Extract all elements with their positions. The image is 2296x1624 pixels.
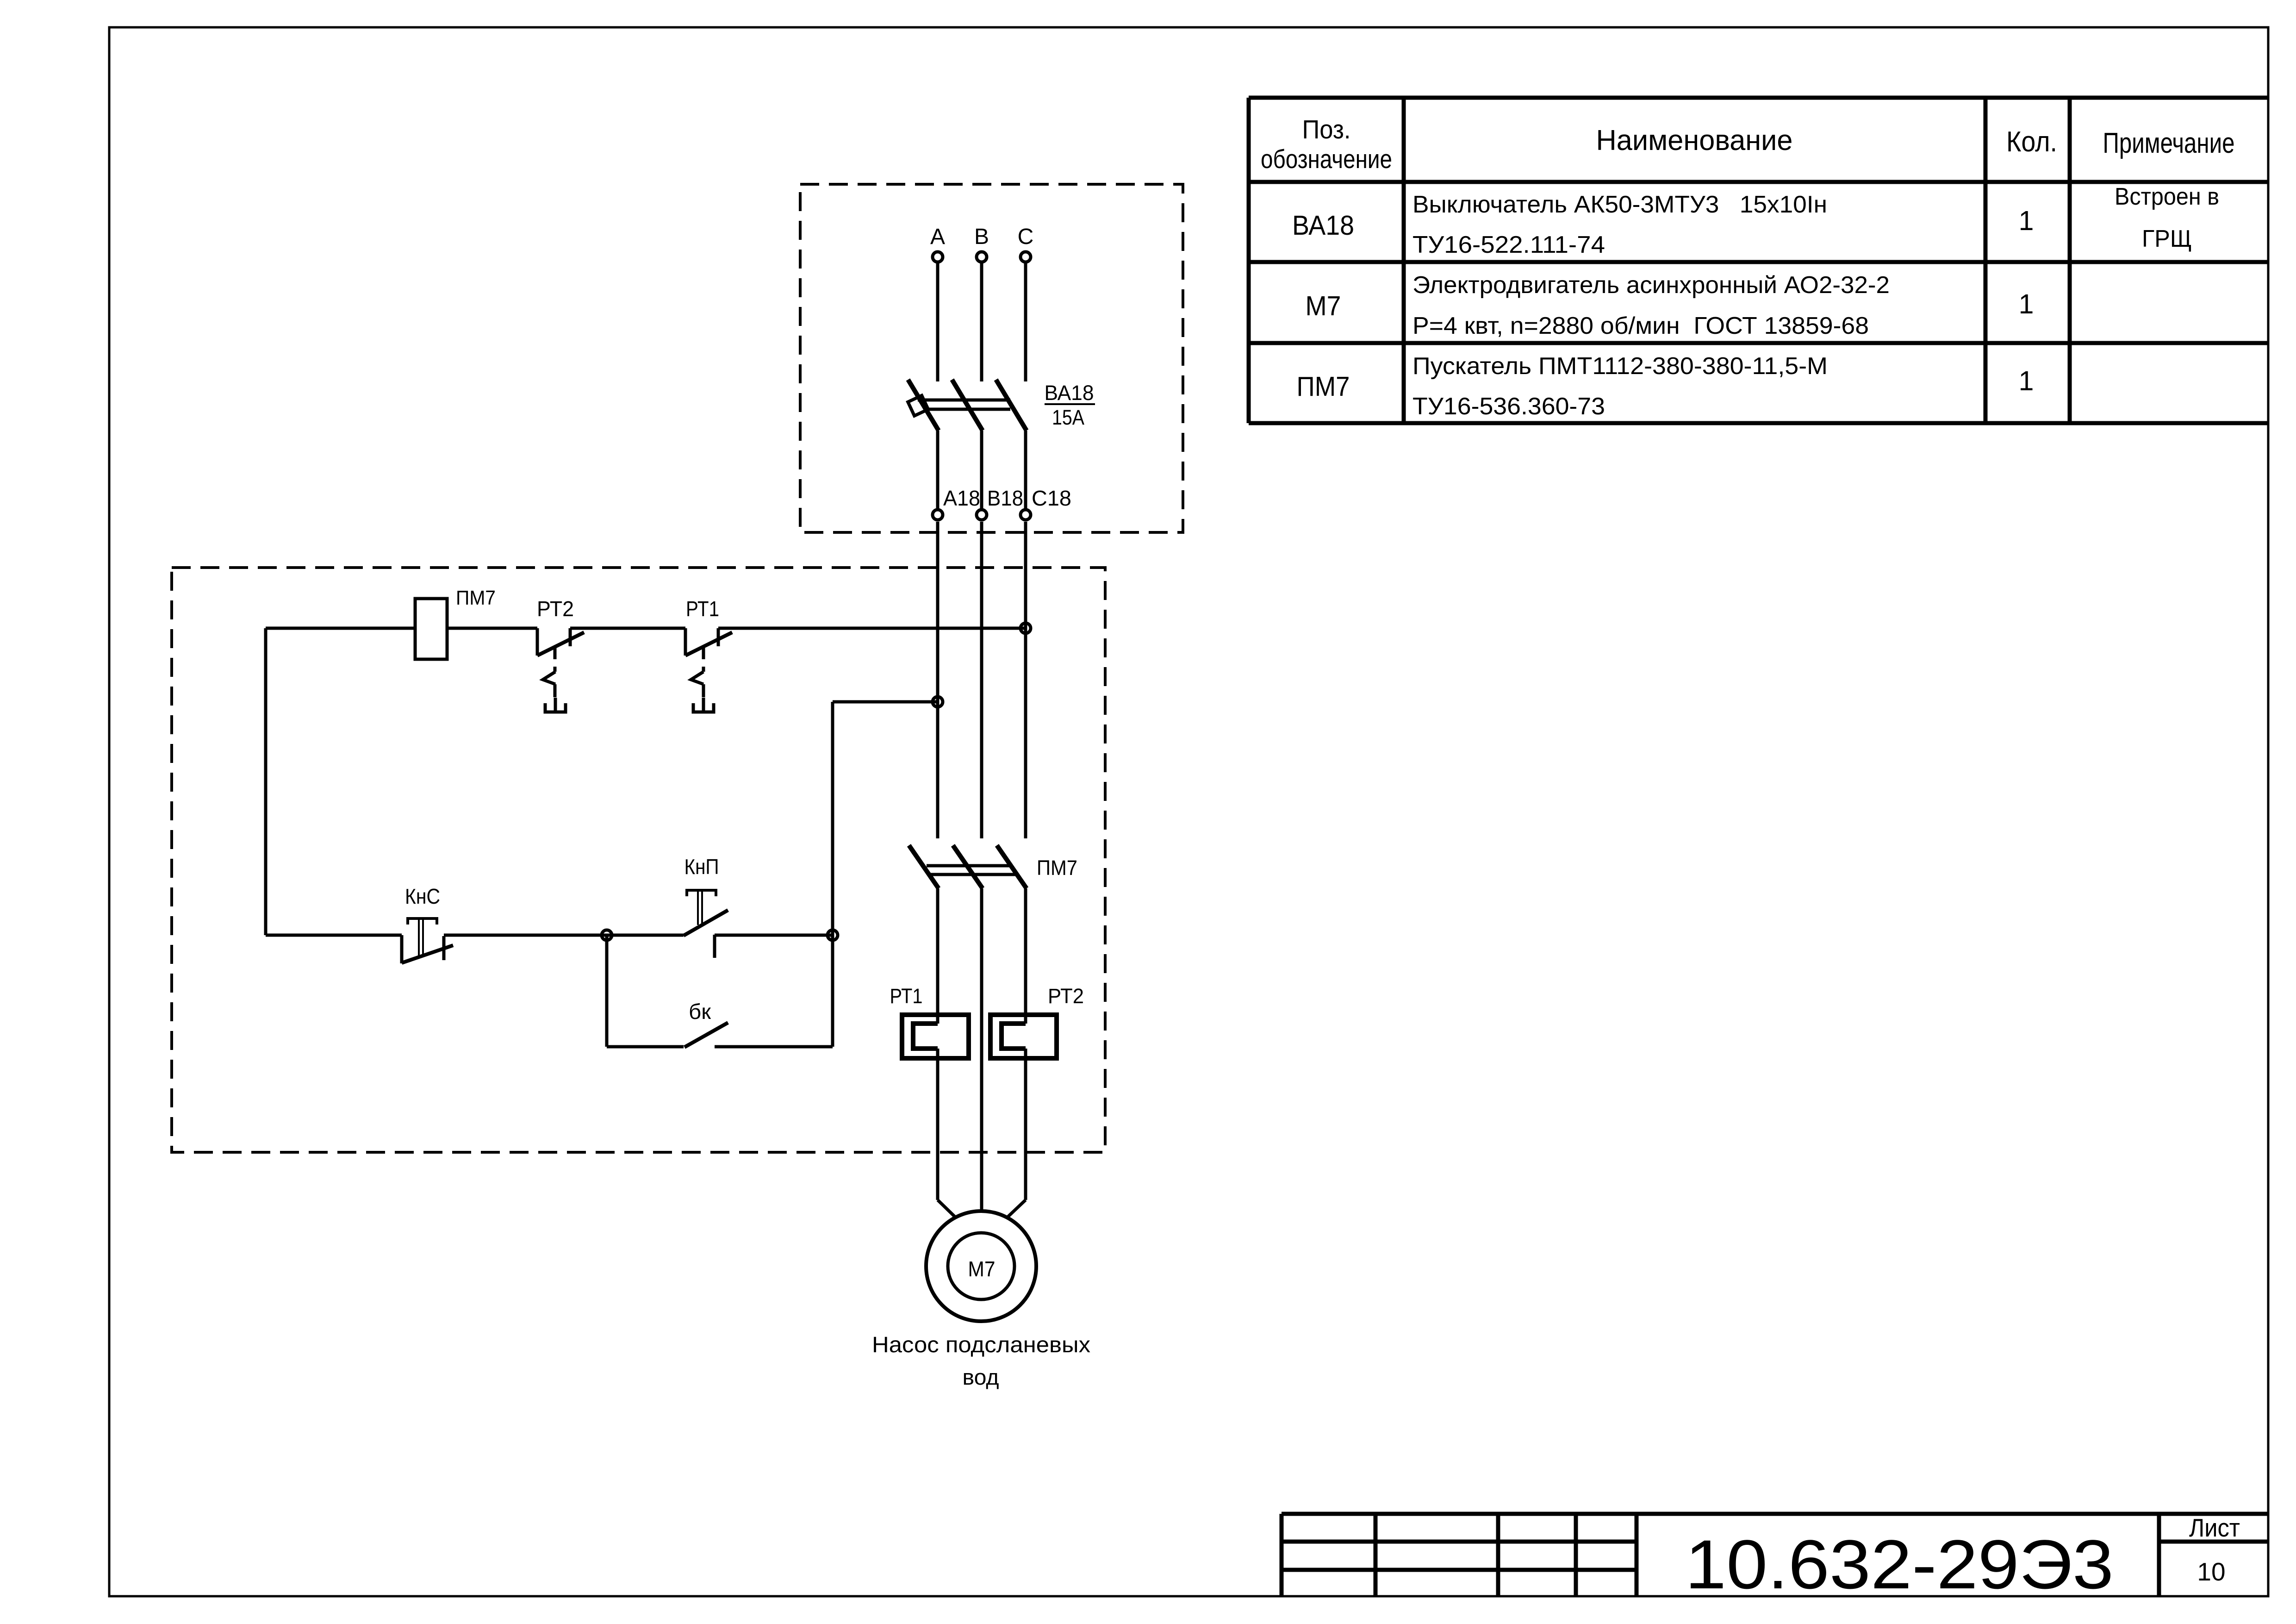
svg-text:РТ2: РТ2 bbox=[1048, 984, 1084, 1008]
node A18 terminal bbox=[933, 510, 943, 520]
svg-text:ПМ7: ПМ7 bbox=[456, 587, 496, 609]
contactor PM7 main contact pole C blade bbox=[997, 845, 1027, 888]
svg-text:В: В bbox=[974, 225, 989, 249]
title block bbox=[1282, 1512, 2268, 1516]
svg-text:Поз.: Поз. bbox=[1302, 115, 1351, 144]
wire RT1 to node on phase C bbox=[718, 627, 1026, 630]
wire coil to RT2 contact bbox=[447, 627, 537, 630]
svg-text:Встроен в: Встроен в bbox=[2115, 183, 2219, 210]
thermal contact RT2 (NC) bbox=[536, 628, 539, 656]
wire KnP to node right bbox=[715, 934, 833, 937]
svg-text:ТУ16-536.360-73: ТУ16-536.360-73 bbox=[1412, 393, 1605, 420]
svg-text:А: А bbox=[930, 225, 945, 249]
wire breaker pole B to terminal B18 bbox=[980, 431, 983, 508]
svg-text:1: 1 bbox=[2019, 289, 2034, 319]
svg-text:10: 10 bbox=[2197, 1557, 2225, 1586]
auxiliary contact bk (NO) bbox=[684, 1023, 728, 1047]
wire phase C to breaker bbox=[1024, 263, 1027, 381]
circuit breaker BA18 pole A blade bbox=[908, 380, 939, 431]
svg-text:Пускатель ПМТ1112-380-380-11,5: Пускатель ПМТ1112-380-380-11,5-М bbox=[1412, 353, 1828, 380]
svg-text:1: 1 bbox=[2019, 206, 2034, 236]
dashed enclosure starter box (lower) bbox=[172, 568, 1105, 1152]
node junction on phase A bbox=[933, 697, 943, 707]
svg-text:РТ1: РТ1 bbox=[890, 984, 923, 1008]
wire node to KnP bbox=[607, 934, 684, 937]
wire control top run bbox=[266, 627, 415, 630]
parts list table bbox=[1249, 96, 2268, 100]
wire net A18 down to contactor bbox=[936, 522, 940, 838]
svg-text:Кол.: Кол. bbox=[2006, 126, 2057, 158]
wire RT2 to motor bbox=[1024, 1049, 1027, 1200]
wire net B18 down to contactor bbox=[980, 522, 983, 838]
node A supply terminal bbox=[933, 252, 943, 262]
svg-text:Лист: Лист bbox=[2189, 1513, 2240, 1542]
svg-text:1: 1 bbox=[2019, 366, 2034, 396]
contactor PM7 main contact pole B blade bbox=[953, 845, 983, 888]
svg-text:ПМ7: ПМ7 bbox=[1297, 371, 1350, 402]
contactor PM7 main contact pole A blade bbox=[909, 845, 939, 888]
wire phase A to breaker bbox=[936, 263, 940, 381]
svg-text:Насос подсланевых: Насос подсланевых bbox=[872, 1333, 1090, 1357]
svg-text:ПМ7: ПМ7 bbox=[1037, 856, 1077, 880]
wire bk branch left vertical bbox=[605, 935, 609, 1047]
svg-text:вод: вод bbox=[963, 1365, 999, 1389]
wire KnS to node bbox=[444, 934, 607, 937]
contactor PM7 linkage bar bbox=[927, 864, 1013, 868]
wire breaker pole C to terminal C18 bbox=[1024, 431, 1027, 508]
svg-text:обозначение: обозначение bbox=[1261, 144, 1392, 174]
circuit breaker BA18 pole B blade bbox=[952, 380, 983, 431]
motor M7 bbox=[926, 1211, 1036, 1321]
pushbutton KnP (start, NO) bbox=[713, 935, 716, 958]
svg-text:ГРЩ: ГРЩ bbox=[2142, 225, 2192, 252]
svg-text:С: С bbox=[1018, 225, 1034, 249]
svg-text:Электродвигатель асинхронный А: Электродвигатель асинхронный АО2-32-2 bbox=[1412, 272, 1890, 299]
node C18 terminal bbox=[1020, 510, 1031, 520]
thermal contact RT1 (NC) bbox=[684, 628, 687, 656]
svg-text:Р=4 квт, n=2880 об/мин ГОСТ 1: Р=4 квт, n=2880 об/мин ГОСТ 13859-68 bbox=[1412, 312, 1869, 339]
svg-text:ТУ16-522.111-74: ТУ16-522.111-74 bbox=[1412, 231, 1605, 258]
wire riser to node on phase A bbox=[833, 700, 938, 704]
svg-text:Примечание: Примечание bbox=[2103, 127, 2235, 159]
wire pole B to motor bbox=[980, 888, 983, 1211]
wire node right vertical riser bbox=[831, 702, 834, 1047]
wire pole A to heater RT1 bbox=[936, 888, 940, 1024]
wire control bottom run bbox=[266, 934, 402, 937]
svg-text:бк: бк bbox=[689, 999, 711, 1024]
svg-text:М7: М7 bbox=[968, 1257, 996, 1281]
circuit breaker BA18 trip bar bbox=[918, 399, 1010, 402]
wire RT2 to RT1 contact bbox=[570, 627, 685, 630]
wire net C18 down to contactor bbox=[1024, 522, 1027, 838]
circuit breaker BA18 release square bbox=[908, 395, 928, 416]
wire bk branch bottom left bbox=[607, 1045, 684, 1049]
wire breaker pole A to terminal A18 bbox=[936, 431, 940, 508]
node junction right bbox=[828, 930, 838, 940]
svg-text:А18: А18 bbox=[943, 486, 980, 510]
svg-text:В18: В18 bbox=[987, 486, 1023, 510]
wire phase B to breaker bbox=[980, 263, 983, 381]
thermal relay heater RT2 bbox=[990, 1015, 1057, 1058]
svg-text:РТ2: РТ2 bbox=[537, 597, 574, 621]
node junction left (KnP/bk) bbox=[602, 930, 612, 940]
node C supply terminal bbox=[1020, 252, 1031, 262]
svg-text:РТ1: РТ1 bbox=[686, 597, 719, 621]
svg-text:М7: М7 bbox=[1306, 291, 1341, 321]
wire control loop left vertical bbox=[264, 628, 268, 935]
wire RT1 to motor bbox=[936, 1049, 940, 1200]
svg-text:С18: С18 bbox=[1032, 486, 1071, 510]
dashed enclosure GRShch (upper switchboard box) bbox=[800, 184, 1183, 532]
svg-text:15А: 15А bbox=[1052, 406, 1084, 429]
svg-text:КнС: КнС bbox=[405, 884, 440, 908]
wire pole C to heater RT2 bbox=[1024, 888, 1027, 1024]
svg-text:ВА18: ВА18 bbox=[1045, 381, 1094, 405]
node junction on phase C bbox=[1020, 623, 1031, 633]
node B supply terminal bbox=[977, 252, 987, 262]
svg-text:ВА18: ВА18 bbox=[1292, 210, 1354, 241]
svg-text:Наименование: Наименование bbox=[1596, 125, 1793, 156]
pushbutton KnS (stop, NC) bbox=[400, 935, 404, 963]
node B18 terminal bbox=[977, 510, 987, 520]
svg-text:КнП: КнП bbox=[684, 855, 719, 879]
wire bk to right riser bbox=[715, 1045, 833, 1049]
svg-text:Выключатель АК50-3МТУ3 15х10: Выключатель АК50-3МТУ3 15х10Iн bbox=[1412, 191, 1827, 218]
thermal relay heater RT1 bbox=[902, 1015, 969, 1058]
svg-text:10.632-29Э3: 10.632-29Э3 bbox=[1685, 1525, 2114, 1603]
circuit breaker BA18 pole C blade bbox=[996, 380, 1027, 431]
coil PM7 bbox=[415, 599, 447, 659]
